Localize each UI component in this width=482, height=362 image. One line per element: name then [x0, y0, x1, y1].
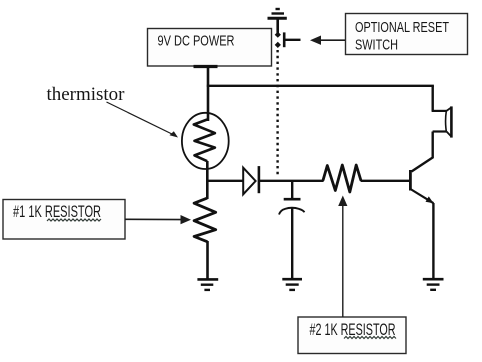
- 9V DC POWER label box: [148, 29, 272, 67]
- wire: emitter down to ground: [432, 203, 434, 278]
- resistor R1 (vertical zigzag): [194, 198, 216, 241]
- wire: diode to resistor 2: [259, 180, 324, 182]
- wire: node down to capacitor: [291, 181, 293, 199]
- thermistor pointer arrow: [107, 102, 179, 138]
- thermistor TH1: [182, 113, 229, 169]
- reset switch pointer arrow: [310, 36, 345, 45]
- resistor R2 (horizontal zigzag): [323, 165, 361, 192]
- OPTIONAL RESET SWITCH label box: [346, 14, 468, 55]
- battery terminal bar under power box: [194, 65, 218, 68]
- wire: capacitor down to ground: [291, 208, 293, 278]
- capacitor C1: [279, 199, 304, 214]
- wire: resistor 1 down to ground: [206, 241, 209, 279]
- svg-text:#1 1K RESISTOR: #1 1K RESISTOR: [13, 202, 101, 221]
- svg-text:9V DC POWER: 9V DC POWER: [158, 34, 235, 50]
- svg-text:SWITCH: SWITCH: [355, 37, 398, 54]
- dotted wire from switch down to diode-capacitor node: [276, 50, 278, 176]
- #2 resistor pointer arrow: [338, 196, 347, 318]
- reset switch (push button): [275, 32, 301, 48]
- svg-text:OPTIONAL RESET: OPTIONAL RESET: [355, 19, 449, 36]
- svg-text:thermistor: thermistor: [47, 84, 126, 105]
- diode D1: [243, 166, 259, 194]
- wire: speaker down to transistor collector: [412, 132, 433, 172]
- svg-text:#2 1K RESISTOR: #2 1K RESISTOR: [310, 320, 396, 339]
- wire: top horizontal rail: [207, 85, 434, 87]
- wire: resistor 2 to transistor base: [361, 180, 410, 182]
- ground (above reset switch, inverted): [268, 9, 287, 33]
- wire: node to diode: [207, 180, 243, 182]
- speaker SP1: [432, 106, 452, 137]
- #1 resistor pointer arrow: [125, 215, 191, 224]
- wire: right side down to speaker: [432, 86, 434, 111]
- wire: power box down to thermistor: [207, 67, 210, 122]
- transistor Q1: [410, 170, 433, 203]
- ground (below resistor 1): [197, 279, 218, 290]
- #1 1K RESISTOR label box: [3, 200, 125, 240]
- ground (below capacitor): [282, 279, 302, 290]
- #2 1K RESISTOR label box: [298, 317, 406, 354]
- wire: thermistor down to node and resistor 1: [206, 161, 209, 199]
- ground (below transistor): [423, 279, 444, 290]
